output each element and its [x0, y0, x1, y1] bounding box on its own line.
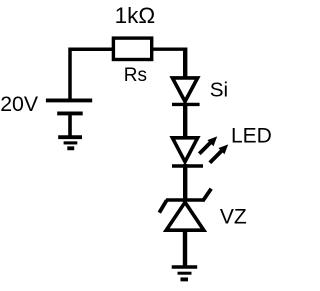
wire battery to left ground — [68, 113, 72, 137]
battery 20V negative plate — [57, 111, 82, 115]
ground (right, under zener) — [172, 267, 198, 279]
svg-text:Si: Si — [210, 79, 228, 102]
zener diode VZ cathode bar with hooks — [159, 189, 211, 213]
battery 20V positive plate — [46, 98, 92, 102]
svg-text:20V: 20V — [0, 92, 39, 116]
wire LED to zener — [183, 164, 187, 199]
LED arrow 1 — [199, 136, 217, 153]
svg-text:1kΩ: 1kΩ — [115, 3, 156, 28]
ground (left, under battery) — [58, 137, 82, 148]
wire from battery + up and across to resistor — [70, 49, 112, 100]
label 20V — [0, 92, 39, 116]
wire Si to LED — [183, 103, 187, 139]
label VZ — [220, 206, 247, 229]
wire down from corner to Si diode — [183, 48, 187, 80]
zener diode VZ triangle — [166, 202, 204, 230]
label Si — [210, 79, 228, 102]
LED — [172, 138, 203, 166]
wire zener to right ground — [183, 230, 187, 267]
LED arrow 2 — [210, 144, 228, 162]
resistor Rs — [113, 38, 151, 59]
wire from resistor right to top corner — [152, 48, 185, 51]
diode Si — [172, 78, 200, 105]
svg-text:LED: LED — [231, 124, 272, 147]
svg-text:Rs: Rs — [124, 65, 147, 86]
svg-text:VZ: VZ — [220, 206, 247, 229]
label LED — [231, 124, 272, 147]
label 1kΩ — [115, 3, 156, 28]
label Rs — [124, 65, 147, 86]
